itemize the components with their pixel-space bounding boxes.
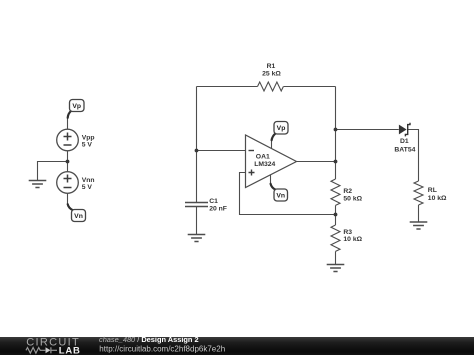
svg-text:5 V: 5 V [82,142,93,149]
svg-text:LM324: LM324 [254,161,275,168]
svg-text:http://circuitlab.com/c2hf8dp6: http://circuitlab.com/c2hf8dp6k7e2h [99,345,225,354]
svg-text:50 kΩ: 50 kΩ [343,195,362,202]
svg-text:RL: RL [428,187,437,194]
svg-text:5 V: 5 V [82,184,93,191]
svg-text:Vnn: Vnn [82,177,95,184]
svg-text:20 nF: 20 nF [209,206,227,213]
svg-text:Vn: Vn [74,213,83,220]
svg-text:D1: D1 [400,138,409,145]
svg-text:Vp: Vp [277,125,286,132]
svg-text:C1: C1 [209,198,218,205]
svg-text:10 kΩ: 10 kΩ [343,236,362,243]
svg-text:R2: R2 [343,188,352,195]
svg-text:R1: R1 [267,63,276,70]
svg-text:10 kΩ: 10 kΩ [428,195,447,202]
svg-text:LAB: LAB [59,346,81,355]
svg-text:BAT54: BAT54 [394,146,415,153]
svg-text:Vp: Vp [72,103,81,110]
svg-text:OA1: OA1 [256,153,270,160]
svg-text:Vpp: Vpp [82,134,95,141]
svg-text:chase_480 / Design Assign 2: chase_480 / Design Assign 2 [99,335,199,344]
svg-text:R3: R3 [343,229,352,236]
svg-text:25 kΩ: 25 kΩ [262,71,281,78]
svg-text:Vn: Vn [276,193,285,200]
